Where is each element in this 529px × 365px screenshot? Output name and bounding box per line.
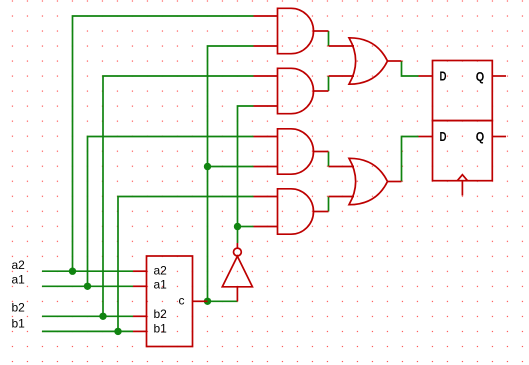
svg-text:D: D: [440, 69, 447, 84]
svg-text:a2: a2: [154, 264, 168, 278]
svg-text:b1: b1: [154, 322, 168, 336]
svg-text:b2: b2: [154, 307, 168, 321]
svg-text:c: c: [179, 294, 185, 308]
svg-text:Q: Q: [476, 129, 485, 144]
svg-text:a2: a2: [12, 258, 26, 272]
svg-text:D: D: [440, 129, 447, 144]
svg-text:a1: a1: [154, 278, 168, 292]
svg-text:Q: Q: [476, 69, 485, 84]
svg-text:b2: b2: [12, 301, 26, 315]
svg-text:a1: a1: [12, 273, 26, 287]
svg-text:b1: b1: [12, 317, 26, 331]
